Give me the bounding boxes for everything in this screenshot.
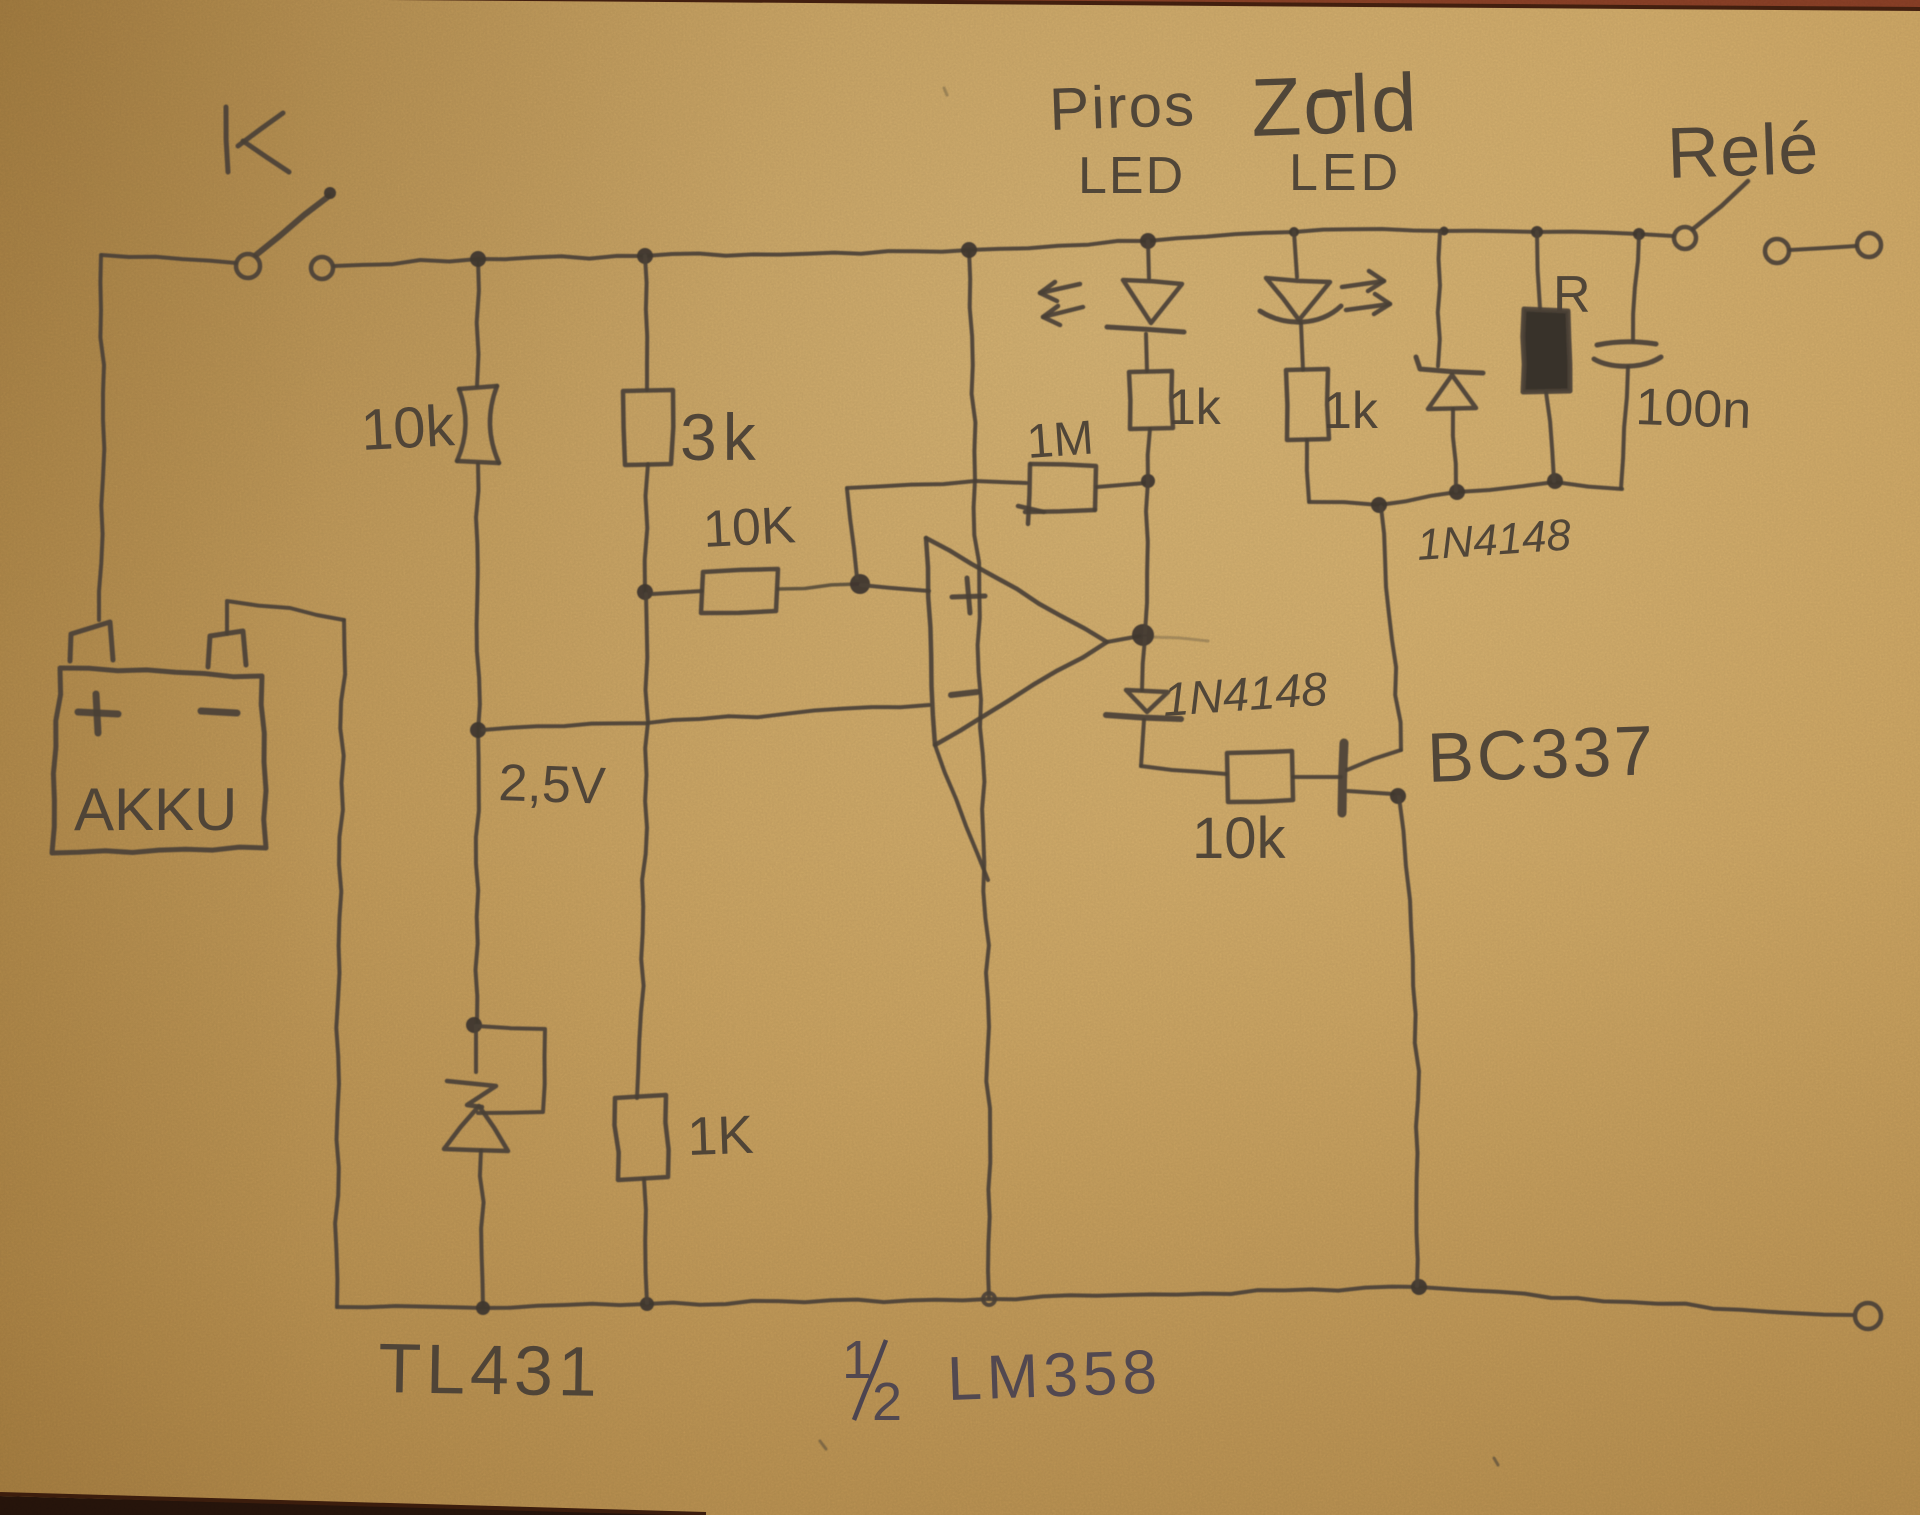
svg-text:LED: LED	[1289, 144, 1402, 202]
svg-text:TL431: TL431	[378, 1329, 603, 1411]
svg-text:10k: 10k	[1192, 806, 1287, 871]
svg-text:2: 2	[872, 1372, 902, 1432]
svg-text:10K: 10K	[702, 496, 798, 559]
svg-text:BC337: BC337	[1426, 711, 1658, 797]
svg-text:Zold: Zold	[1249, 57, 1420, 154]
svg-text:LM358: LM358	[946, 1338, 1163, 1414]
svg-text:R: R	[1553, 266, 1591, 324]
svg-text:100n: 100n	[1635, 378, 1753, 440]
svg-text:LED: LED	[1078, 147, 1185, 205]
svg-text:Relé: Relé	[1666, 109, 1821, 194]
svg-text:1k: 1k	[1168, 379, 1222, 435]
svg-text:1K: 1K	[686, 1105, 754, 1167]
svg-text:1M: 1M	[1025, 411, 1095, 469]
svg-text:Piros: Piros	[1048, 71, 1197, 143]
svg-text:10k: 10k	[359, 393, 457, 463]
svg-text:3k: 3k	[680, 400, 762, 474]
svg-text:1k: 1k	[1323, 382, 1379, 440]
svg-text:AKKU: AKKU	[74, 776, 237, 843]
svg-text:2,5V: 2,5V	[498, 754, 607, 816]
